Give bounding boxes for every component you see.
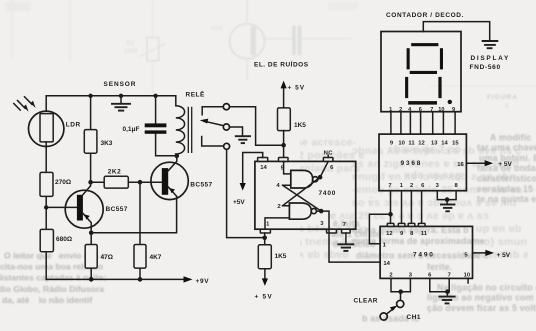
svg-text:enroladas 15 espi: enroladas 15 espi <box>477 184 536 194</box>
svg-text:47Ω: 47Ω <box>101 254 113 261</box>
svg-text:ligação ao negativo com c: ligação ao negativo com c <box>427 293 536 303</box>
svg-text:1K5: 1K5 <box>275 253 287 260</box>
svg-text:SENSOR: SENSOR <box>104 81 137 88</box>
svg-text:4K7: 4K7 <box>150 254 162 261</box>
svg-text:+ 5V: + 5V <box>497 252 511 259</box>
svg-text:2: 2 <box>410 183 413 189</box>
svg-text:2K2: 2K2 <box>108 169 121 176</box>
svg-text:A modific: A modific <box>490 132 532 142</box>
svg-text:FND-560: FND-560 <box>470 64 501 71</box>
svg-text:7400: 7400 <box>319 190 337 197</box>
svg-text:RELÊ: RELÊ <box>186 90 206 99</box>
svg-text:+5V: +5V <box>233 199 245 206</box>
svg-text:10: 10 <box>398 141 404 147</box>
svg-text:+9V: +9V <box>196 278 210 285</box>
svg-text:270Ω: 270Ω <box>55 179 71 186</box>
svg-text:dio Globo, Rádio Difusora: dio Globo, Rádio Difusora <box>0 284 104 294</box>
svg-text:11: 11 <box>408 141 415 147</box>
svg-text:EL. DE RUÍDOS: EL. DE RUÍDOS <box>254 60 309 69</box>
svg-text:DISPLAY: DISPLAY <box>471 55 510 62</box>
svg-text:tar uma chave de: tar uma chave de <box>477 143 536 153</box>
svg-text:2: 2 <box>389 272 392 278</box>
svg-text:ʌ ɐb sbɐb: ʌ ɐb sbɐb <box>298 249 349 261</box>
svg-text:+ 5V: + 5V <box>255 294 273 301</box>
svg-text:100R: 100R <box>124 49 139 55</box>
svg-text:7: 7 <box>388 183 391 189</box>
svg-text:5: 5 <box>505 103 509 110</box>
svg-text:15: 15 <box>452 141 459 147</box>
svg-text:da, até lo não identif: da, até lo não identif <box>2 295 92 305</box>
svg-text:LDR: LDR <box>66 121 81 128</box>
svg-text:0,1μF: 0,1μF <box>123 126 140 133</box>
svg-text:ção devem ficar as 5 voltas. P: ção devem ficar as 5 voltas. P <box>427 303 536 313</box>
svg-text:11: 11 <box>421 231 428 237</box>
svg-text:3K3: 3K3 <box>101 140 113 147</box>
svg-text:BC557: BC557 <box>190 181 212 188</box>
svg-text:1K5: 1K5 <box>294 122 306 129</box>
svg-text:BC557: BC557 <box>106 206 128 213</box>
svg-text:te na quinta esp: te na quinta esp <box>477 194 536 204</box>
svg-text:se acresce-: se acresce- <box>296 137 357 149</box>
svg-text:ate 1 cm de: ate 1 cm de <box>331 229 381 239</box>
svg-text:CONTADOR / DECOD.: CONTADOR / DECOD. <box>386 12 464 19</box>
svg-text:16: 16 <box>457 162 464 168</box>
svg-text:característicoi. inc: característicoi. inc <box>477 174 536 184</box>
svg-text:CH1: CH1 <box>407 314 422 321</box>
svg-text:9368: 9368 <box>401 160 423 167</box>
svg-text:ferite.: ferite. <box>427 262 452 272</box>
svg-text:+ 5V: + 5V <box>288 84 306 91</box>
svg-text:SOS: SOS <box>210 26 223 32</box>
svg-text:R2: R2 <box>127 41 135 47</box>
svg-text:14: 14 <box>383 261 390 267</box>
svg-text:12: 12 <box>418 141 424 147</box>
svg-text:7: 7 <box>448 272 451 278</box>
svg-text:ndo as seg: ndo as seg <box>404 170 462 182</box>
svg-text:CLEAR: CLEAR <box>354 297 378 304</box>
svg-text:7490: 7490 <box>413 252 435 259</box>
svg-text:13: 13 <box>431 141 438 147</box>
svg-text:FIGURA: FIGURA <box>487 94 518 101</box>
svg-text:Na ligação no circuito da t: Na ligação no circuito da t <box>437 282 536 292</box>
svg-text:10: 10 <box>464 272 470 278</box>
svg-text:14: 14 <box>441 141 448 147</box>
svg-text:12: 12 <box>386 231 392 237</box>
svg-text:+ 5V: + 5V <box>498 161 512 168</box>
svg-text:14: 14 <box>260 165 267 171</box>
svg-text:up ɐn ɐb: up ɐn ɐb <box>476 223 522 235</box>
svg-text:680Ω: 680Ω <box>56 236 72 243</box>
